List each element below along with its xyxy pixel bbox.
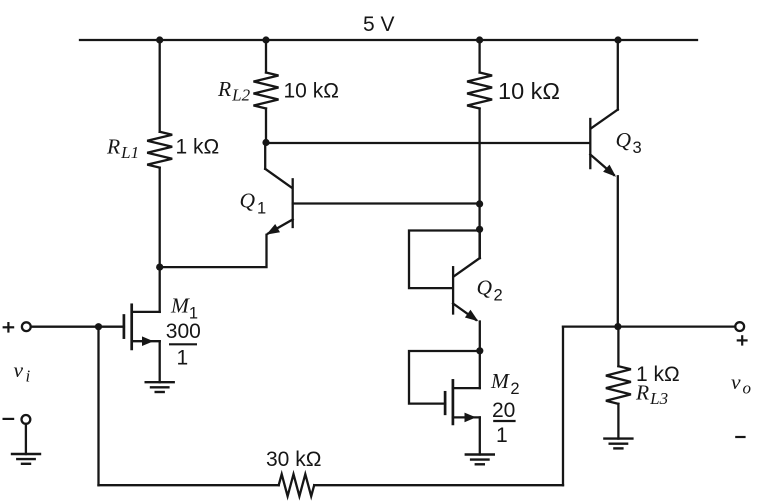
node rail-10k [476, 36, 483, 43]
wire Q3 emitter down [617, 176, 619, 326]
svg-text:RL1: RL1 [106, 135, 139, 163]
resistor RL2 10k [254, 73, 279, 109]
wire feedback bottom right [314, 484, 563, 486]
wire M1 drain up to node A [159, 267, 161, 312]
svg-text:5 V: 5 V [363, 13, 395, 36]
wire RL3 to ground [617, 404, 619, 439]
svg-text:30 kΩ: 30 kΩ [266, 448, 321, 471]
node G (output/Q3 emitter/RL3) [614, 323, 621, 330]
wire 10k down to Q2 collector [478, 109, 480, 259]
terminal input - [22, 415, 31, 424]
resistor 10k (second) [467, 73, 492, 109]
wire node G to RL3 [617, 327, 619, 367]
svg-text:Q3: Q3 [616, 128, 642, 157]
transistor Q3 [590, 40, 618, 177]
label output minus [735, 436, 745, 438]
wire feedback right vertical [562, 327, 564, 486]
svg-text:10 kΩ: 10 kΩ [284, 80, 339, 103]
node rail-RL2 [262, 36, 269, 43]
ground input [12, 454, 40, 464]
ground M2 [466, 455, 494, 465]
wire rail to RL2 [265, 40, 267, 73]
transistor Q1 [265, 143, 293, 235]
wire input to M1 gate [31, 326, 124, 328]
resistor RL3 1k [606, 366, 631, 404]
wire feedback bottom left [99, 484, 279, 486]
wire RL2 to node B [265, 109, 267, 143]
svg-text:10 kΩ: 10 kΩ [498, 78, 560, 104]
wire rail to 10k resistor [478, 40, 480, 73]
svg-text:1: 1 [496, 424, 508, 447]
terminal input + [22, 322, 31, 331]
wire feedback left vertical [97, 327, 99, 486]
svg-text:vi: vi [14, 358, 31, 386]
wire M2 gate loop [409, 351, 480, 404]
wire rail to RL1 [159, 40, 161, 132]
transistor Q2 (diode connected) [453, 229, 480, 321]
label output plus [737, 335, 748, 345]
wire Q2 base loop [409, 231, 480, 289]
node D (Q2 collector-base tie) [476, 226, 483, 233]
node rail-Q3 [614, 36, 621, 43]
svg-text:20: 20 [492, 399, 515, 422]
svg-text:1 kΩ: 1 kΩ [176, 136, 220, 159]
svg-text:Q1: Q1 [240, 189, 267, 218]
svg-text:M1: M1 [170, 294, 198, 323]
transistor M1 (NMOS) [124, 305, 160, 349]
wire Q2 emitter down [479, 322, 481, 351]
wire input - to ground [25, 424, 27, 454]
node E (Q2 emitter / M2 drain-gate) [476, 347, 483, 354]
svg-text:M2: M2 [490, 369, 520, 398]
resistor 30k feedback [279, 474, 315, 496]
ground M1 [146, 382, 174, 392]
wire M1 source to ground [159, 341, 161, 382]
label input minus [3, 418, 15, 420]
svg-text:vo: vo [731, 370, 751, 398]
wire output [563, 325, 735, 327]
node C (Q1 base junction) [476, 200, 483, 207]
svg-text:1: 1 [177, 347, 189, 370]
wire Q1 base [293, 202, 480, 204]
label input plus [3, 322, 15, 333]
node rail-RL1 [156, 36, 163, 43]
svg-text:RL2: RL2 [217, 77, 251, 105]
wire M2 drain [479, 351, 481, 388]
node A (RL1/M1 drain/Q1 emitter) [156, 264, 163, 271]
wire RL1 to node A [159, 168, 161, 268]
ground RL3 [604, 439, 632, 449]
svg-text:300: 300 [166, 320, 201, 343]
svg-text:Q2: Q2 [477, 276, 503, 305]
node B (RL2/Q1 collector/Q3 base wire) [262, 139, 269, 146]
wire 5V supply rail [80, 39, 697, 41]
terminal output + [735, 322, 744, 331]
resistor RL1 1k [147, 132, 172, 168]
node F (input/feedback junction) [95, 323, 102, 330]
wire Q1 emitter down [160, 235, 267, 267]
transistor M2 (NMOS diode connected) [445, 380, 480, 424]
wire node B to Q3 base [266, 142, 589, 144]
wire M2 source to ground [479, 417, 481, 454]
